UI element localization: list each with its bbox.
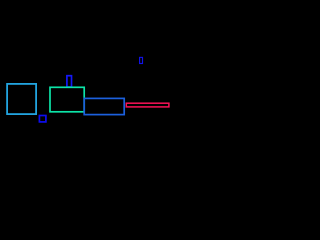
green body rectangle (50, 87, 84, 112)
blue turret rectangle (67, 76, 72, 87)
blue rectangle (84, 98, 124, 114)
score digit 0 (blue) (140, 57, 143, 63)
small blue square (bullet) (39, 116, 46, 122)
red barrel rectangle (126, 103, 169, 107)
cyan square (7, 84, 36, 114)
